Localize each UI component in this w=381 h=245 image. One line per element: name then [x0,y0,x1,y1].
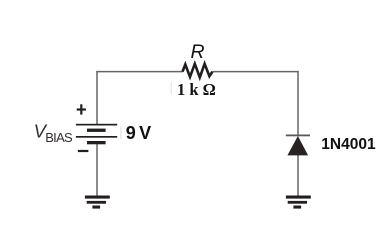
svg-text:R: R [191,41,205,63]
diode D1 triangle (anode, pointing up) [287,136,308,155]
wire: right vertical from top wire down to diode cathode [297,71,299,135]
ground (right, below diode) [286,196,311,209]
wire: diode anode down to right ground [297,155,299,196]
faint artifact left of value label [171,83,172,95]
faint artifact left of 9 V [120,127,121,140]
wire: top-left horizontal from node A to resistor [96,71,183,73]
resistor R1 zigzag body [183,64,213,78]
ground (left, below battery) [85,196,110,209]
svg-text:9 V: 9 V [126,123,151,143]
battery - polarity sign [78,150,89,152]
battery + polarity sign [77,104,86,114]
battery V_BIAS plate 4 (short thick, -) [87,141,106,144]
wire: battery - terminal down to left ground [96,144,98,197]
svg-text:1N4001: 1N4001 [321,136,376,153]
battery V_BIAS plate 3 (long) [76,136,117,138]
battery V_BIAS plate 2 (short thick) [87,129,106,132]
diode D1 cathode bar [286,135,310,137]
svg-text:1 k Ω: 1 k Ω [177,80,216,99]
wire: left vertical from top wire down to battery + terminal [96,71,98,125]
wire: top-right horizontal from resistor to right branch [213,71,299,73]
battery V_BIAS plate 1 (long, +) [76,124,117,126]
svg-text:BIAS: BIAS [45,130,73,145]
